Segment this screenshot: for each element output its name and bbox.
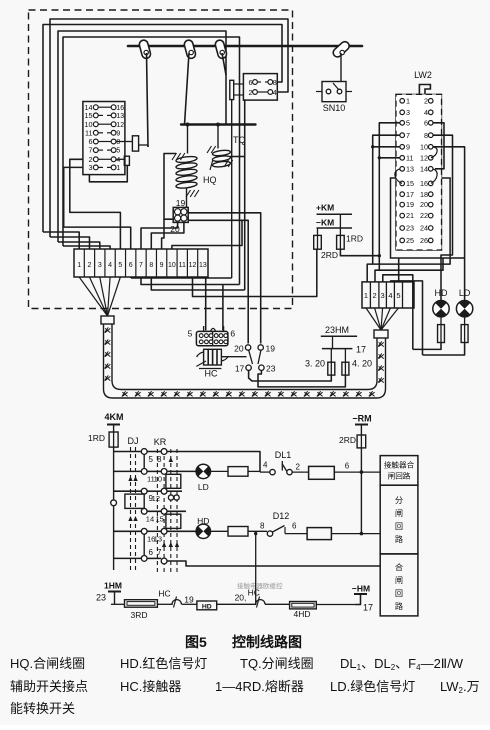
wire: top rail T2 <box>43 25 282 233</box>
connector block 19/20 <box>173 207 188 222</box>
LW2 contact 15-16 <box>400 181 405 186</box>
svg-text:10: 10 <box>420 142 428 151</box>
svg-text:11: 11 <box>179 262 186 269</box>
switch S1 blade <box>147 53 149 147</box>
svg-text:3. 20: 3. 20 <box>305 359 325 369</box>
svg-text:LD.绿色信号灯: LD.绿色信号灯 <box>330 679 415 694</box>
resistor (LD row) <box>228 467 248 477</box>
wire: LD top to LW2 box <box>450 257 465 259</box>
svg-text:HQ.合闸线圈: HQ.合闸线圈 <box>10 656 85 671</box>
wire: into terminal 1 <box>43 232 79 249</box>
svg-text:LD: LD <box>198 482 209 492</box>
wire <box>248 530 267 532</box>
svg-text:8: 8 <box>273 78 277 87</box>
LW2 contact 13-14 <box>400 167 405 172</box>
svg-text:9: 9 <box>406 142 410 151</box>
wire: LD resistor down <box>423 343 465 356</box>
wire: 2RD down <box>360 448 362 534</box>
svg-text:13: 13 <box>154 535 162 544</box>
fuse 4HD <box>290 602 317 609</box>
wire fan: terminals to right cable <box>366 308 381 330</box>
switch blade 20-17 <box>249 350 253 364</box>
LW2 contact 19-20 <box>400 202 405 207</box>
svg-text:TQ: TQ <box>233 135 246 145</box>
svg-text:9: 9 <box>116 130 120 137</box>
wire <box>331 533 380 535</box>
box: contactor closing circuit <box>380 456 418 486</box>
wire: LW2 5 left <box>379 123 400 270</box>
svg-text:1: 1 <box>116 165 120 172</box>
svg-text:回: 回 <box>395 522 403 531</box>
wire: box to HC contacts <box>188 220 248 343</box>
svg-text:20: 20 <box>234 344 244 354</box>
wire: main bus <box>128 45 362 48</box>
LW2 solid box <box>391 178 451 258</box>
wire: bus2 to TQ <box>217 125 219 149</box>
svg-text:4: 4 <box>388 291 392 300</box>
wire: 23 down to 4.20 <box>258 370 345 387</box>
resistor (DL1 row) <box>309 466 335 479</box>
svg-text:11: 11 <box>85 128 92 137</box>
wire: HQ box to terminal 9 <box>162 219 164 249</box>
contact 11 <box>141 469 147 475</box>
svg-text:闸: 闸 <box>395 509 403 518</box>
svg-text:回: 回 <box>395 589 403 598</box>
linkage arrows <box>128 457 179 547</box>
terminal strip 1-13 <box>74 249 208 277</box>
svg-text:HD: HD <box>202 603 212 610</box>
wire <box>248 470 260 472</box>
coil HQ <box>176 156 198 164</box>
coil TQ <box>212 149 230 156</box>
svg-text:2RD: 2RD <box>339 435 356 445</box>
wire: HC coil to switch 20/17 <box>221 356 246 358</box>
contact 5 <box>141 449 147 455</box>
svg-text:19: 19 <box>406 200 414 209</box>
contact HC (bottom 2) <box>252 600 265 605</box>
svg-text:8: 8 <box>424 131 428 140</box>
svg-text:7: 7 <box>139 262 143 269</box>
svg-text:25: 25 <box>406 236 414 245</box>
svg-text:合: 合 <box>395 562 403 572</box>
svg-text:−KM: −KM <box>316 218 334 228</box>
lug left of box <box>230 80 234 99</box>
cable run (X-marked) <box>104 324 386 398</box>
signal lamp HD <box>433 301 449 317</box>
wire: box bottom to terminal 7 <box>141 222 178 249</box>
svg-text:3RD: 3RD <box>130 610 147 620</box>
svg-text:17: 17 <box>356 345 366 355</box>
svg-text:19: 19 <box>266 344 276 354</box>
svg-text:1RD: 1RD <box>346 234 363 244</box>
svg-text:1HM: 1HM <box>104 581 122 591</box>
signal lamp LD (lower) <box>196 464 210 478</box>
svg-text:4: 4 <box>273 88 277 97</box>
svg-text:15: 15 <box>155 515 163 524</box>
LW2 hook 10-12 <box>431 147 437 158</box>
contact 9 <box>141 488 147 494</box>
svg-text:12: 12 <box>152 494 160 503</box>
wire: LW2 6 right loop to 14 <box>433 123 444 169</box>
HQ enclosure box <box>164 154 176 220</box>
svg-text:分: 分 <box>395 496 403 505</box>
contact box 6-8/2-4 <box>243 74 277 101</box>
svg-text:5: 5 <box>118 262 122 269</box>
wire: under-terminal rail 3 <box>151 277 244 290</box>
svg-text:D12: D12 <box>273 511 290 521</box>
svg-text:17: 17 <box>363 603 373 613</box>
knife switch S2 <box>183 39 196 59</box>
terminal 4KM <box>107 424 120 426</box>
LW2 contact 17-18 <box>400 192 405 197</box>
svg-text:5: 5 <box>116 148 120 155</box>
svg-text:−RM: −RM <box>352 414 371 424</box>
svg-text:12: 12 <box>420 153 428 162</box>
svg-text:3: 3 <box>98 262 102 269</box>
rail -KM <box>317 227 353 229</box>
wire: under-terminal rail 1 to HC <box>130 277 132 278</box>
svg-text:HC: HC <box>158 589 170 599</box>
LW2 contact 9-10 <box>400 145 405 150</box>
svg-text:5: 5 <box>149 455 154 464</box>
resistor HD <box>438 325 445 343</box>
wire: LW2 11 left <box>379 157 400 159</box>
wire fan: terminals 1-5 to cable <box>79 277 107 316</box>
svg-text:6: 6 <box>230 329 235 339</box>
svg-text:5: 5 <box>396 291 400 300</box>
wire: link 5-11 <box>143 454 145 468</box>
svg-text:2: 2 <box>424 96 428 105</box>
svg-text:2: 2 <box>249 88 253 97</box>
svg-text:4: 4 <box>116 157 120 164</box>
switch DL1 <box>270 469 275 474</box>
wire: row F to closing circuit box <box>167 561 380 566</box>
wire: row A <box>114 451 142 453</box>
cable clamp right <box>374 330 388 338</box>
wire: second bus <box>181 123 256 125</box>
wire: LW2 8 to HD lamp <box>433 135 453 301</box>
wire: LW2 7 left <box>373 135 400 264</box>
wire: TQ left lead <box>210 160 213 170</box>
wire: lug down to under-terminal rail <box>231 100 233 278</box>
LW2 dashed box <box>396 94 442 250</box>
wire: TQ right lead <box>230 156 245 158</box>
svg-text:22: 22 <box>420 211 428 220</box>
svg-text:8: 8 <box>260 522 265 531</box>
svg-text:13: 13 <box>199 262 207 269</box>
terminal rail 23HM <box>321 335 357 337</box>
svg-text:闸: 闸 <box>395 576 403 585</box>
svg-text:2RD: 2RD <box>321 250 338 260</box>
svg-text:13: 13 <box>406 164 414 173</box>
svg-text:4: 4 <box>424 108 428 117</box>
wire: cell5 up <box>398 258 400 282</box>
svg-text:2: 2 <box>373 291 377 300</box>
wire: bottom rail <box>111 603 125 605</box>
fuse 3RD <box>125 600 158 608</box>
svg-text:21: 21 <box>406 211 414 220</box>
resistor LD <box>461 325 468 343</box>
svg-text:10: 10 <box>168 262 176 269</box>
wire: row C <box>114 490 142 492</box>
svg-text:23: 23 <box>406 224 414 233</box>
switch S2 blade <box>185 53 190 125</box>
wire: top rail T1 <box>50 19 288 237</box>
contact 14 <box>141 508 147 514</box>
LW2 contact 5-6 <box>400 121 405 126</box>
wire: row D <box>143 510 161 512</box>
svg-text:DJ: DJ <box>128 436 139 446</box>
svg-text:−HM: −HM <box>352 584 370 594</box>
svg-text:26: 26 <box>420 236 428 245</box>
wire: lug2 down <box>89 165 127 181</box>
LW2 hook 13-15 <box>395 169 402 184</box>
relay frame (right upper) <box>166 474 181 488</box>
wire <box>182 603 197 605</box>
aux block lug2 (row 4) <box>117 158 125 160</box>
signal lamp LD <box>456 301 472 317</box>
svg-text:4HD: 4HD <box>293 609 310 619</box>
DJ linkage dashed <box>130 447 132 572</box>
svg-text:4. 20: 4. 20 <box>352 359 372 369</box>
LW2 contact 3-4 <box>400 110 405 115</box>
wire: box bottom to terminal 8 <box>151 222 184 249</box>
svg-text:HC: HC <box>205 369 218 379</box>
svg-text:16: 16 <box>420 179 428 188</box>
wire: feeder rail n4 <box>391 281 423 355</box>
rail +KM <box>317 213 353 215</box>
fuse 2RD (upper) <box>317 228 319 235</box>
wire <box>217 603 252 605</box>
wire <box>211 530 229 532</box>
terminal 1HM <box>108 591 121 593</box>
svg-text:DL1: DL1 <box>275 450 292 460</box>
wire: top rail T3 <box>58 31 226 242</box>
signal lamp HD (lower) <box>196 524 210 538</box>
wire: row F <box>114 557 142 559</box>
svg-text:KR: KR <box>154 437 167 447</box>
LW2 hook 14-16 <box>431 169 437 184</box>
switch blade 19-23 <box>258 350 261 364</box>
svg-text:接触器合: 接触器合 <box>384 460 415 470</box>
fuse 1RD (upper) <box>339 214 341 235</box>
wire <box>211 470 229 472</box>
wire: into terminal 2 <box>50 237 90 249</box>
svg-text:7: 7 <box>157 548 162 557</box>
svg-text:6: 6 <box>292 522 297 531</box>
svg-text:14: 14 <box>146 515 154 524</box>
wire: feeder rail n3 <box>383 275 413 350</box>
svg-text:闸回路: 闸回路 <box>388 471 411 481</box>
wire <box>316 604 355 606</box>
svg-text:14: 14 <box>420 164 428 173</box>
svg-text:HD: HD <box>435 288 448 298</box>
svg-text:SN10: SN10 <box>323 103 346 113</box>
svg-text:TQ.分闸线圈: TQ.分闸线圈 <box>240 656 314 671</box>
svg-text:LW2: LW2 <box>414 70 432 80</box>
LW2 contact 1-2 <box>400 99 405 104</box>
LW2 contact 21-22 <box>400 213 405 218</box>
contactor HC coil <box>204 349 222 365</box>
wire: bus2 to HQ <box>187 125 189 154</box>
wire: link 16-6 <box>143 534 145 555</box>
svg-text:23HM: 23HM <box>325 325 349 335</box>
svg-text:6: 6 <box>249 78 253 87</box>
wire: 1RD to LW2 feeders <box>340 249 379 256</box>
wire <box>285 533 307 535</box>
svg-text:17: 17 <box>235 363 245 373</box>
wire: row E <box>114 530 142 532</box>
wire: LW2 10 to LD lamp <box>433 147 465 301</box>
svg-text:1: 1 <box>406 96 410 105</box>
svg-text:1RD: 1RD <box>88 433 105 443</box>
switch SN10 box <box>322 82 346 102</box>
svg-text:控制线路图: 控制线路图 <box>232 634 302 650</box>
LW2 contact 7-8 <box>400 133 405 138</box>
wire: row B <box>114 470 142 472</box>
svg-text:4: 4 <box>108 262 112 269</box>
wire: top rail T4 <box>63 37 240 285</box>
svg-text:HC: HC <box>248 588 260 598</box>
svg-text:11: 11 <box>406 153 413 162</box>
svg-text:18: 18 <box>420 190 428 199</box>
svg-text:4: 4 <box>263 461 268 470</box>
svg-text:5: 5 <box>406 118 410 127</box>
svg-text:HC.接触器: HC.接触器 <box>120 679 181 694</box>
wire: box upper lead to contact 19 <box>188 213 261 344</box>
wire: LW2 9 left <box>373 146 400 148</box>
svg-text:16: 16 <box>116 105 124 112</box>
knife switch S1 <box>138 39 151 59</box>
svg-text:1—4RD.熔断器: 1—4RD.熔断器 <box>215 679 304 694</box>
svg-text:2: 2 <box>88 262 92 269</box>
svg-text:路: 路 <box>395 601 403 611</box>
svg-text:6: 6 <box>424 118 428 127</box>
aux block lug (row 8) <box>117 141 133 143</box>
svg-text:3: 3 <box>406 108 410 117</box>
switch SN10 lead <box>340 53 342 82</box>
contact 16 <box>141 528 147 534</box>
svg-text:9: 9 <box>160 262 164 269</box>
wire: 17 down to 3.20 <box>249 370 332 381</box>
LW2 contact 11-12 <box>400 156 405 161</box>
wire <box>265 603 290 605</box>
wire: under-terminal rail 4 to 2RD <box>193 249 317 296</box>
svg-text:2: 2 <box>296 463 301 472</box>
svg-text:能转换开关: 能转换开关 <box>10 701 75 716</box>
svg-text:8: 8 <box>157 455 162 464</box>
svg-text:4KM: 4KM <box>104 412 123 422</box>
wire: D12 node down to rail <box>255 534 257 605</box>
LW2 contact 25-26 <box>400 238 405 243</box>
svg-text:19: 19 <box>176 198 186 208</box>
svg-text:1: 1 <box>77 262 81 269</box>
switch S3 blade <box>222 53 226 75</box>
resistor (D12 row) <box>307 528 331 540</box>
wire: aux row2 left to terminal 5 <box>70 159 121 249</box>
svg-text:路: 路 <box>395 534 403 544</box>
LW2 contact 23-24 <box>400 226 405 231</box>
wire: aux row3 left to terminal 6 <box>64 167 131 249</box>
svg-text:8: 8 <box>116 139 120 146</box>
wire: into terminal 3 <box>58 242 100 249</box>
resistor (HD row) <box>228 527 248 537</box>
terminal -HM <box>354 593 367 595</box>
svg-text:6: 6 <box>129 262 133 269</box>
svg-text:6: 6 <box>345 462 350 471</box>
wire: feeder rail n1 <box>367 258 450 282</box>
svg-text:13: 13 <box>116 113 124 120</box>
svg-text:+KM: +KM <box>316 203 334 213</box>
svg-text:23: 23 <box>266 363 276 373</box>
relay frame (right lower) <box>166 514 181 528</box>
svg-text:HQ: HQ <box>203 175 217 185</box>
fuse HD (bottom) <box>197 601 217 610</box>
knife switch S4 <box>331 40 351 59</box>
svg-text:15: 15 <box>406 179 414 188</box>
wire: under-terminal rail 2 to HC <box>141 277 240 285</box>
svg-text:15: 15 <box>85 111 93 120</box>
contactor HC terminal block <box>196 331 228 345</box>
contact 6 <box>141 556 147 562</box>
svg-text:20: 20 <box>420 200 428 209</box>
svg-text:HD.红色信号灯: HD.红色信号灯 <box>120 656 207 671</box>
KR linkage dashed <box>156 449 158 575</box>
svg-text:6: 6 <box>149 548 154 557</box>
wire: to terminal 10 <box>172 220 242 249</box>
svg-text:12: 12 <box>189 262 197 269</box>
svg-text:接触电器欧缓控: 接触电器欧缓控 <box>237 581 283 590</box>
svg-text:19: 19 <box>184 595 194 605</box>
svg-text:8: 8 <box>149 262 153 269</box>
knife switch S3 <box>214 39 227 59</box>
svg-text:17: 17 <box>406 190 414 199</box>
cable clamp left <box>101 316 114 324</box>
wire: into terminal 4 <box>63 246 110 249</box>
box: closing circuit <box>380 554 418 616</box>
svg-text:3: 3 <box>89 163 93 172</box>
wire: left bus down <box>113 447 115 570</box>
svg-text:10: 10 <box>154 475 162 484</box>
svg-text:24: 24 <box>420 224 428 233</box>
wire <box>334 471 380 473</box>
wire: box bottom-left down <box>243 100 244 290</box>
svg-text:1: 1 <box>364 291 368 300</box>
auxiliary switch contact block <box>83 102 125 175</box>
svg-text:5: 5 <box>188 329 193 339</box>
svg-text:图5: 图5 <box>185 634 207 650</box>
svg-text:辅助开关接点: 辅助开关接点 <box>10 679 88 694</box>
cable X marks <box>105 327 384 396</box>
svg-text:7: 7 <box>406 131 410 140</box>
terminal -RM <box>355 424 368 426</box>
dashed enclosure border <box>29 10 293 309</box>
relay frame (left) <box>125 494 144 508</box>
contact HC (bottom 1) <box>169 600 181 605</box>
terminal strip 1-5 <box>362 282 414 308</box>
box: opening circuit <box>380 485 418 554</box>
svg-text:7: 7 <box>89 146 93 155</box>
svg-text:3: 3 <box>381 291 385 300</box>
wire: HD resistor down <box>413 343 441 350</box>
svg-text:20,: 20, <box>235 593 247 603</box>
contacts (extra pair) <box>168 495 173 500</box>
switch D12 <box>267 531 272 536</box>
wire <box>157 603 169 605</box>
wire: feeder rail n2 <box>375 258 443 282</box>
LW2 handle symbol <box>419 85 430 95</box>
svg-text:23: 23 <box>96 593 106 603</box>
